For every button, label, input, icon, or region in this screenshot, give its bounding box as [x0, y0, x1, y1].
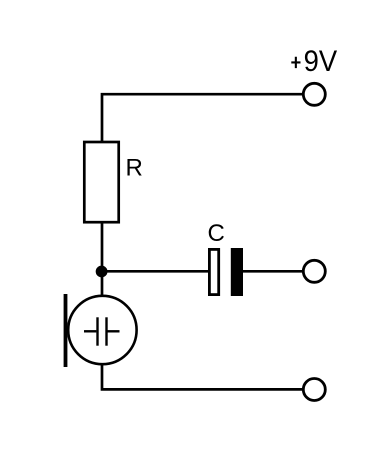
terminal output	[303, 260, 325, 282]
terminal ground	[303, 379, 325, 401]
microphone internal capacitor lead right	[108, 330, 120, 332]
capacitor C plate negative	[231, 248, 243, 296]
wire top: resistor top to +9V terminal	[102, 94, 302, 143]
microphone MIC body	[68, 296, 136, 364]
microphone internal plate right	[105, 317, 107, 345]
terminal +9V	[303, 83, 325, 105]
microphone internal capacitor lead left	[84, 330, 96, 332]
node junction	[96, 266, 108, 278]
wire: capacitor to output terminal	[243, 270, 303, 273]
capacitor C plate positive	[209, 249, 218, 294]
resistor R	[84, 142, 118, 222]
microphone internal plate left	[96, 317, 98, 345]
wire: resistor bottom to microphone top (through junction)	[101, 221, 104, 296]
label +9V plus sign	[291, 57, 300, 68]
microphone case bar	[64, 294, 68, 367]
svg-text:9V: 9V	[304, 45, 338, 78]
wire: junction to capacitor	[102, 270, 209, 273]
svg-text:C: C	[208, 220, 225, 247]
wire: microphone bottom to ground terminal	[102, 364, 302, 389]
svg-text:R: R	[126, 155, 143, 182]
